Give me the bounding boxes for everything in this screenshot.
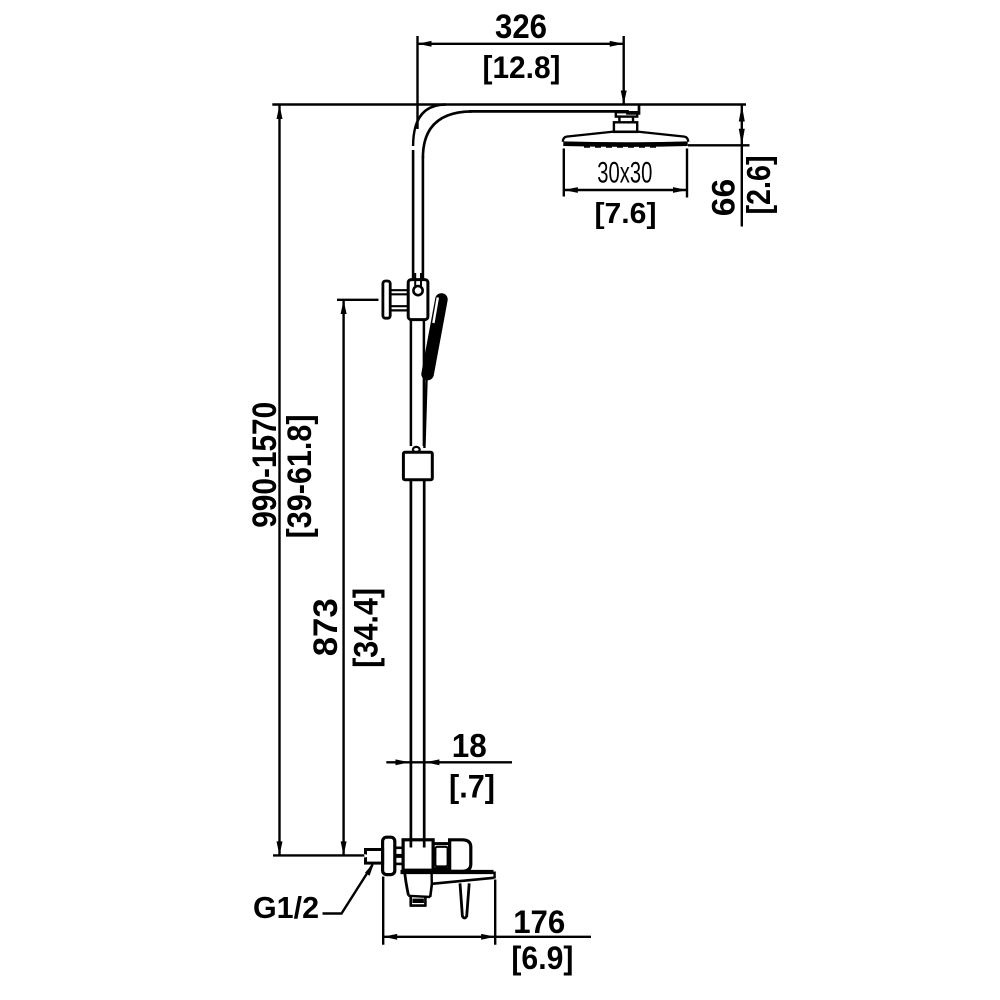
- svg-text:[7.6]: [7.6]: [595, 198, 657, 230]
- svg-text:[12.8]: [12.8]: [483, 49, 561, 85]
- svg-text:[6.9]: [6.9]: [511, 940, 573, 976]
- svg-text:176: 176: [513, 904, 565, 940]
- svg-text:873: 873: [307, 598, 345, 656]
- svg-text:18: 18: [452, 727, 487, 764]
- svg-text:30x30: 30x30: [597, 157, 652, 190]
- svg-text:[.7]: [.7]: [449, 769, 495, 805]
- svg-text:[34.4]: [34.4]: [348, 588, 386, 668]
- svg-text:G1/2: G1/2: [253, 891, 319, 925]
- svg-text:[2.6]: [2.6]: [740, 156, 777, 215]
- svg-text:[39-61.8]: [39-61.8]: [281, 414, 319, 538]
- svg-text:990-1570: 990-1570: [246, 402, 284, 528]
- svg-text:66: 66: [705, 179, 741, 217]
- svg-text:326: 326: [495, 8, 547, 46]
